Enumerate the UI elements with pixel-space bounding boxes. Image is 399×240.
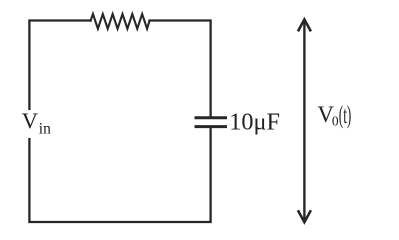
output voltage arrow (double-headed) xyxy=(298,20,311,223)
wire top-left segment xyxy=(29,21,90,110)
svg-text:10μF: 10μF xyxy=(229,109,280,136)
svg-text:(t): (t) xyxy=(339,102,352,130)
svg-text:0: 0 xyxy=(332,113,339,128)
capacitor C1 top plate xyxy=(196,116,226,119)
svg-text:in: in xyxy=(39,120,51,137)
wire top-right segment xyxy=(150,21,211,117)
node Vin label xyxy=(22,108,51,137)
node V0(t) label xyxy=(317,102,351,130)
svg-text:V: V xyxy=(22,108,38,133)
capacitor C1 bottom plate xyxy=(196,125,226,128)
resistor R1 xyxy=(91,14,150,29)
wire right-bottom segment xyxy=(29,128,210,222)
